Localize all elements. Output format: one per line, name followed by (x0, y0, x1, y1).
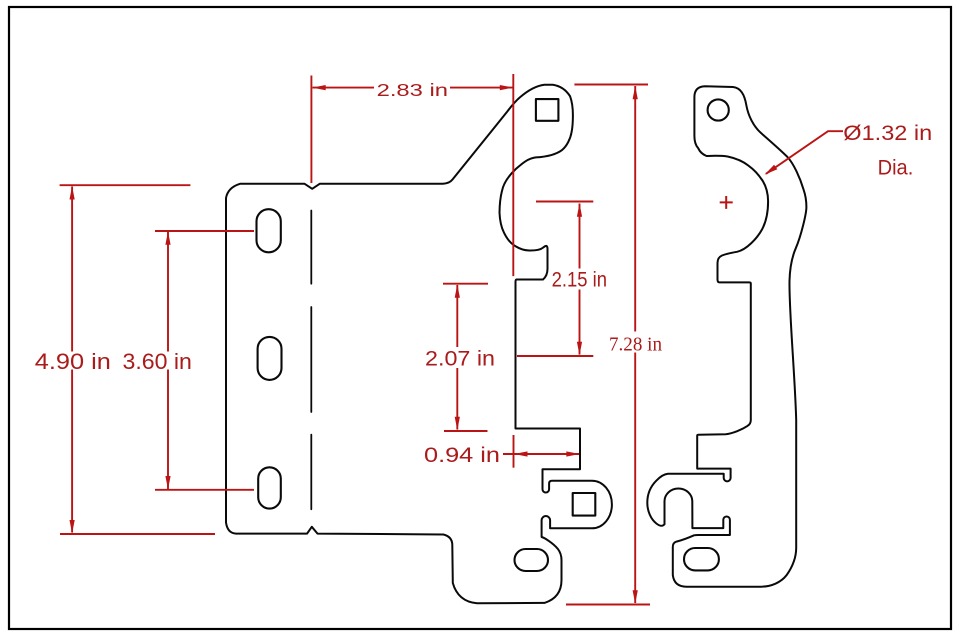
dim 2.07 line (456, 285, 458, 430)
arrowhead 0.94 left (514, 451, 528, 456)
formed side view outline (647, 86, 806, 587)
center cross (720, 196, 733, 209)
svg-text:2.07 in: 2.07 in (425, 348, 495, 371)
dim 4.90 witness bottom (60, 533, 215, 535)
dim 4.90 line (71, 187, 73, 533)
red dimensions (60, 74, 843, 605)
dim 7.28 witness bottom (566, 604, 650, 606)
bracket flat-pattern outline (front view + profile) (226, 85, 612, 604)
dim 2.15 witness bottom (517, 355, 593, 357)
svg-text:2.83 in: 2.83 in (377, 80, 448, 100)
arrowhead 7.28 top (633, 86, 638, 100)
svg-text:4.90 in: 4.90 in (35, 349, 111, 374)
arrowhead 2.83 left (312, 85, 326, 90)
dim 2.83 ext left (310, 76, 312, 184)
svg-text:3.60 in: 3.60 in (123, 349, 192, 374)
arrowhead 2.07 top (455, 284, 460, 298)
arrowhead leader dia (765, 165, 778, 175)
oval hole foot (515, 549, 549, 571)
arrowhead 2.15 top (577, 203, 582, 217)
oval hole right foot (684, 548, 719, 570)
square hole head (536, 99, 559, 121)
svg-text:2.15 in: 2.15 in (552, 269, 607, 292)
dim 4.90 witness top (60, 184, 191, 186)
arrowhead 4.90 top (70, 186, 75, 200)
dim 2.83 ext right (512, 74, 514, 276)
slot 2 (258, 337, 282, 380)
arrowhead 3.60 top (165, 231, 170, 245)
dim 3.60 line (167, 232, 169, 489)
arrowhead 2.07 bottom (455, 417, 460, 431)
dim 2.15 line (579, 204, 581, 355)
dim 0.94 ext (513, 435, 515, 468)
arrowhead 2.15 bottom (577, 342, 582, 356)
svg-text:Ø1.32 in: Ø1.32 in (843, 122, 932, 145)
dim 2.07 witness top (443, 283, 488, 285)
svg-text:0.94 in: 0.94 in (424, 444, 500, 467)
arrowhead 7.28 bottom (633, 590, 638, 604)
dim 7.28 line (634, 86, 636, 603)
dim 7.28 witness top (574, 84, 648, 86)
dim 0.94 line (503, 453, 579, 455)
arrowhead 3.60 bottom (165, 476, 170, 490)
circle hole (708, 99, 729, 120)
dim 3.60 witness bottom (155, 489, 254, 491)
leader line dia (766, 131, 843, 174)
slot 1 (257, 209, 281, 252)
dim 3.60 witness top (155, 230, 254, 232)
bend line (dashed) (310, 211, 312, 510)
dim 2.15 witness top (536, 201, 593, 203)
square hole hook (573, 493, 596, 516)
dim 2.07 witness bottom (444, 430, 488, 432)
arrowhead 4.90 bottom (70, 520, 75, 534)
svg-text:Dia.: Dia. (878, 156, 914, 179)
arrowhead 2.83 right (500, 85, 514, 90)
dim 2.83 line (313, 87, 513, 89)
slot 3 (258, 467, 281, 508)
svg-text:7.28 in: 7.28 in (609, 335, 662, 356)
arrowhead 0.94 right (566, 451, 580, 456)
